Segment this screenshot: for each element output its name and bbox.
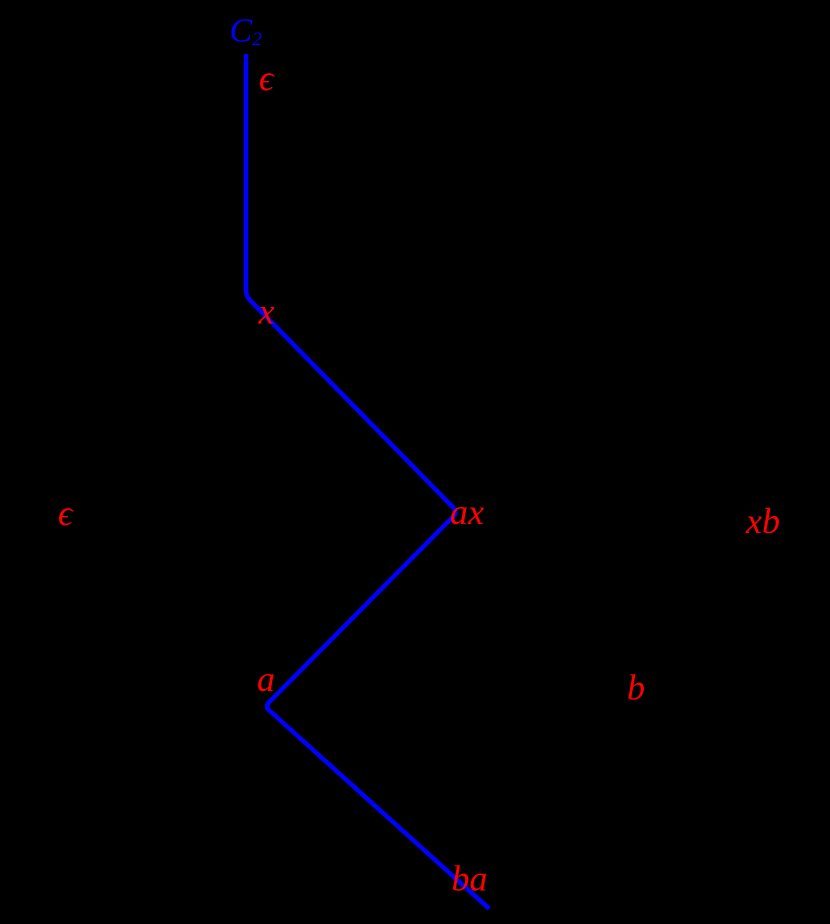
svg-text:b: b [627, 668, 645, 708]
svg-text:ϵ: ϵ [259, 58, 275, 98]
svg-text:ax: ax [450, 492, 484, 532]
svg-text:x: x [258, 292, 275, 332]
svg-text:a: a [257, 659, 275, 699]
wire: blue path C2 (vertical segment, bend at x, bend at ax, bend at a, end at ba) [246, 54, 489, 909]
svg-text:ϵ: ϵ [58, 493, 74, 533]
svg-text:xb: xb [745, 501, 780, 541]
svg-text:ba: ba [452, 859, 488, 899]
